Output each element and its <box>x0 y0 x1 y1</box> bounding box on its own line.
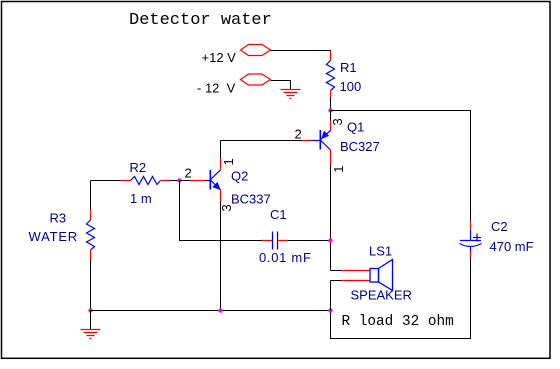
speaker LS1 <box>331 244 412 311</box>
-12V port symbol <box>241 74 271 85</box>
svg-text:C1: C1 <box>270 207 287 222</box>
svg-text:3: 3 <box>330 118 345 125</box>
svg-text:LS1: LS1 <box>369 244 392 259</box>
wire Q1 base to Q2 collector corner <box>221 140 303 142</box>
svg-text:+12 V: +12 V <box>202 50 237 65</box>
svg-text:WATER: WATER <box>29 229 79 244</box>
svg-text:BC327: BC327 <box>340 139 380 154</box>
Q1 arrow <box>321 131 329 139</box>
svg-text:470 mF: 470 mF <box>490 239 534 254</box>
svg-text:R1: R1 <box>340 60 357 75</box>
Q1 bottom pin <box>330 150 332 165</box>
Q2 emitter pin <box>220 190 222 201</box>
Q2 collector wire from corner <box>220 141 222 159</box>
speaker body <box>370 269 379 283</box>
wire to speaker top pin <box>331 270 342 272</box>
Q2 base pin <box>190 180 205 182</box>
transistor Q2 <box>185 141 271 212</box>
node C junction dot <box>328 238 332 242</box>
svg-text:C2: C2 <box>491 219 508 234</box>
svg-text:0.01 mF: 0.01 mF <box>259 250 312 265</box>
Q1 base bar <box>319 130 321 150</box>
wire node B to Q2 base <box>180 180 191 182</box>
wire C1 right to node C <box>288 240 331 242</box>
node E junction dot (R3 bottom) <box>88 308 92 312</box>
transistor Q1 <box>295 111 380 173</box>
Q1 top pin wire <box>330 111 332 121</box>
ground (signal) <box>90 311 92 330</box>
+12V port symbol <box>241 45 271 56</box>
svg-text:- 12 V: - 12 V <box>197 81 236 96</box>
svg-text:2: 2 <box>185 166 192 181</box>
svg-text:1: 1 <box>221 158 236 165</box>
svg-text:SPEAKER: SPEAKER <box>351 288 412 303</box>
wire node B down and right to C1 <box>180 181 263 241</box>
Q1 emitter diagonal (top) <box>321 131 331 140</box>
Q2 collector diagonal <box>211 170 221 180</box>
svg-text:Q1: Q1 <box>347 120 364 135</box>
node B junction dot (R2 right) <box>177 178 181 182</box>
resistor R2 <box>91 160 180 206</box>
Q1 base pin <box>302 140 311 142</box>
Q2 emitter diagonal <box>211 180 221 190</box>
capacitor C1 <box>259 207 312 265</box>
svg-text:1 m: 1 m <box>130 191 152 206</box>
ground (power) <box>281 90 301 99</box>
node F junction dot (Q2 emitter) <box>218 308 222 312</box>
wire +12V to R1 top <box>271 50 331 53</box>
wire Q1 emitter down to speaker corner <box>330 165 332 271</box>
svg-text:1: 1 <box>331 166 346 173</box>
wire speaker bottom pin <box>331 280 342 282</box>
Q2 base bar <box>209 170 211 190</box>
ground net wire <box>91 310 331 312</box>
capacitor C2 <box>460 219 534 258</box>
wire C2 bottom down, along bottom, up to node D <box>331 258 471 339</box>
Q1 collector diagonal (bottom) <box>321 140 331 150</box>
svg-text:R2: R2 <box>130 160 147 175</box>
node A junction dot <box>328 108 332 112</box>
wire node A to top right corner and down to C2 <box>331 111 471 222</box>
svg-text:2: 2 <box>295 127 302 142</box>
svg-text:Detector water: Detector water <box>129 11 272 30</box>
wire R1 bottom to node A <box>330 97 332 111</box>
Q2 emitter arrow <box>212 182 220 190</box>
svg-text:100: 100 <box>340 79 362 94</box>
svg-text:Q2: Q2 <box>231 169 248 184</box>
wire Q2 emitter down to ground net <box>220 201 222 311</box>
svg-text:BC337: BC337 <box>231 192 271 207</box>
wire -12V to ground <box>271 81 291 90</box>
svg-text:R3: R3 <box>50 211 67 226</box>
resistor R3 <box>29 181 95 311</box>
node D junction dot <box>328 308 332 312</box>
resistor R1 <box>327 51 362 97</box>
svg-text:R load 32 ohm: R load 32 ohm <box>342 314 454 330</box>
